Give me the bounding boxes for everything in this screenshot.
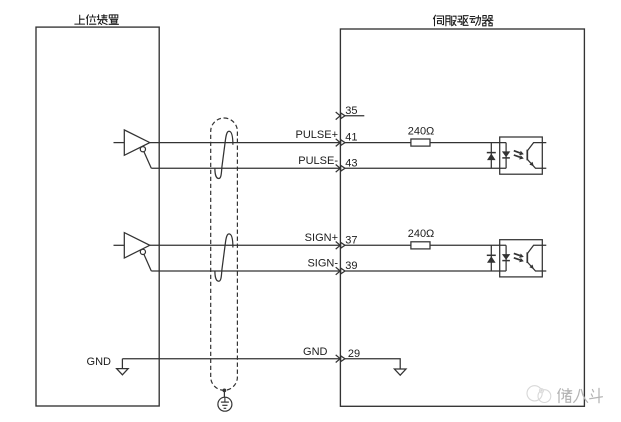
pin 35 connector symbol — [336, 112, 341, 120]
svg-text:29: 29 — [348, 348, 360, 360]
wire pin 39 to optocoupler — [345, 270, 506, 272]
label 伺服驱动器 — [433, 15, 493, 26]
inverting output bubble — [140, 249, 145, 254]
pin 35 stub wire — [345, 115, 364, 117]
svg-text:41: 41 — [345, 132, 357, 144]
resistor 240ohm — [411, 242, 430, 249]
resistor 240ohm — [411, 139, 430, 146]
pin 29 connector symbol — [336, 355, 341, 363]
optocoupler LED — [505, 245, 507, 271]
protection diode across LED — [490, 143, 492, 169]
host controller box 上位装置 — [36, 27, 159, 406]
svg-text:37: 37 — [345, 234, 357, 246]
wire SIGN- — [151, 270, 340, 272]
shield drop wire — [223, 390, 225, 397]
optocoupler box — [500, 137, 543, 174]
light arrows — [514, 151, 520, 153]
wire resistor to optocoupler — [430, 244, 506, 246]
svg-text:240Ω: 240Ω — [408, 125, 435, 137]
shielded cable capsule — [211, 118, 238, 390]
wire PULSE+ — [150, 142, 340, 144]
twisted pair twist symbol — [215, 131, 233, 178]
svg-text:PULSE-: PULSE- — [298, 155, 338, 167]
optocoupler LED — [505, 143, 507, 169]
wire PULSE- — [151, 167, 340, 169]
phototransistor — [526, 150, 528, 161]
phototransistor — [526, 252, 528, 263]
optocoupler box — [500, 240, 543, 277]
pin 37 connector symbol — [336, 242, 341, 250]
watermark text 储八斗 — [558, 388, 603, 402]
svg-text:43: 43 — [345, 157, 357, 169]
light arrows — [514, 253, 520, 255]
GND left drop stub — [121, 359, 123, 369]
ground symbol right — [394, 369, 406, 375]
protective earth symbol — [218, 397, 232, 411]
svg-text:GND: GND — [87, 356, 112, 368]
wire pin 43 to optocoupler — [345, 167, 506, 169]
inverting output bubble — [140, 147, 145, 152]
driver input stub — [114, 142, 125, 144]
pin 41 connector symbol — [336, 139, 341, 147]
wire SIGN+ — [150, 244, 340, 246]
twisted pair twist symbol — [215, 234, 233, 281]
pin 39 connector symbol — [336, 267, 341, 275]
wire pin 29 to ground — [345, 359, 400, 369]
label 上位装置 — [75, 15, 119, 25]
wire pin 41 to resistor — [345, 142, 411, 144]
svg-text:39: 39 — [345, 260, 357, 272]
buffer driver for SIGN+ — [124, 233, 150, 258]
svg-text:35: 35 — [345, 105, 357, 117]
ground symbol left — [117, 369, 129, 375]
svg-text:SIGN-: SIGN- — [307, 258, 338, 270]
wire GND — [122, 358, 340, 360]
shield junction dot — [223, 389, 227, 393]
svg-text:240Ω: 240Ω — [408, 228, 435, 240]
servo driver box 伺服驱动器 — [340, 29, 584, 406]
svg-text:GND: GND — [303, 346, 328, 358]
svg-text:PULSE+: PULSE+ — [296, 129, 339, 141]
pin 43 connector symbol — [336, 165, 341, 173]
watermark logo rings — [527, 386, 551, 403]
driver input stub — [114, 244, 125, 246]
wire pin 37 to resistor — [345, 244, 411, 246]
svg-text:SIGN+: SIGN+ — [305, 232, 338, 244]
buffer driver for PULSE+ — [124, 130, 150, 155]
protection diode across LED — [490, 245, 492, 271]
wire inverted output diagonal — [144, 152, 151, 169]
wire resistor to optocoupler — [430, 142, 506, 144]
wire inverted output diagonal — [144, 254, 151, 271]
